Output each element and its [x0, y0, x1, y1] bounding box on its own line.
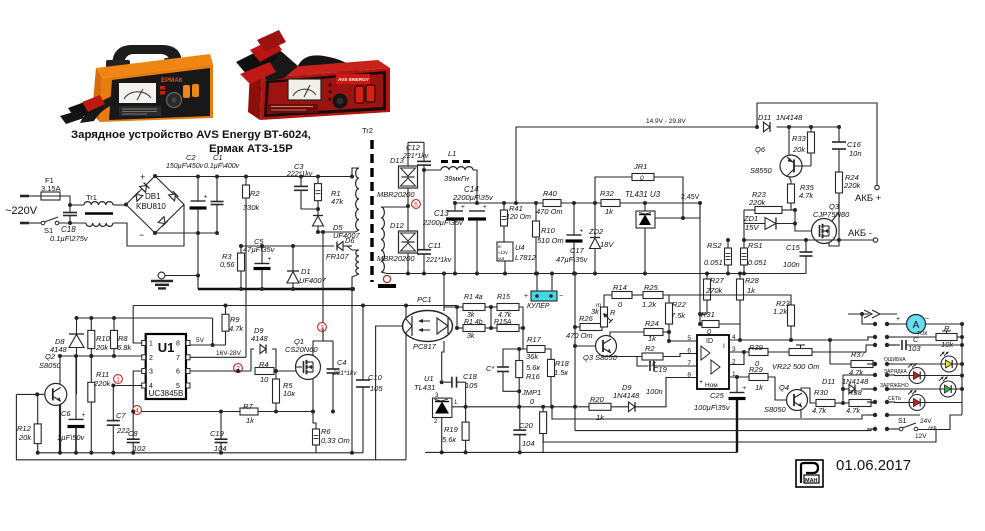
- node 3 marker: [318, 323, 327, 332]
- wire L1 to plus rail: [473, 170, 477, 203]
- row connector wires: [456, 307, 458, 328]
- resistor R10 20k: [90, 318, 92, 330]
- svg-text:D11: D11: [758, 113, 771, 122]
- resistor R1 4a 3k: [463, 304, 485, 311]
- svg-text:7: 7: [687, 360, 691, 367]
- transistor Q3 S8050: [596, 336, 617, 357]
- svg-text:АКБ +: АКБ +: [855, 193, 882, 204]
- shunt regulator U3 TL431: [636, 211, 655, 228]
- resistor R30 4.7k: [816, 400, 835, 407]
- svg-text:5.6к: 5.6к: [526, 363, 540, 372]
- pin3 wire: [729, 351, 749, 353]
- svg-text:out: out: [498, 256, 505, 261]
- svg-text:150µF\450v: 150µF\450v: [166, 163, 204, 170]
- wire opto return riser: [405, 306, 407, 460]
- svg-text:L7812: L7812: [515, 253, 537, 262]
- svg-text:S8050: S8050: [39, 361, 62, 370]
- svg-text:4.7k: 4.7k: [846, 406, 861, 415]
- svg-text:4: 4: [135, 407, 139, 414]
- svg-text:MBR20200: MBR20200: [377, 190, 415, 199]
- wire C12 to L1 node: [423, 165, 425, 170]
- wire AC bottom to switch S1: [29, 222, 41, 224]
- svg-text:VR22 500 Om: VR22 500 Om: [772, 362, 820, 371]
- svg-text:D1: D1: [301, 267, 311, 276]
- svg-text:Ном: Ном: [705, 382, 718, 389]
- svg-text:L1: L1: [448, 149, 456, 158]
- Q6 emitter wire: [788, 127, 790, 156]
- shunt regulator U1 TL431: [433, 398, 452, 417]
- resistor R26 470 Om: [575, 326, 580, 328]
- svg-text:Зарядное устройство AVS Energ: Зарядное устройство AVS Energy ВТ-6024,: [71, 129, 311, 141]
- svg-text:MBR20200: MBR20200: [377, 254, 415, 263]
- svg-text:R8: R8: [118, 334, 128, 343]
- trimmer top wire: [604, 295, 612, 307]
- svg-text:R6: R6: [321, 427, 331, 436]
- capacitor C*: [503, 349, 527, 367]
- wire gate Q3: [795, 224, 812, 232]
- svg-text:СЕТЬ: СЕТЬ: [888, 396, 902, 402]
- svg-text:R9: R9: [230, 315, 240, 324]
- svg-text:Q6: Q6: [755, 145, 766, 154]
- svg-text:14.9V - 29.8V: 14.9V - 29.8V: [646, 118, 686, 125]
- svg-text:15V: 15V: [745, 223, 759, 232]
- capacitor C8 102: [132, 412, 134, 440]
- svg-text:ZD1: ZD1: [743, 214, 758, 223]
- svg-text:R39: R39: [749, 343, 764, 352]
- svg-text:C18: C18: [61, 225, 76, 234]
- svg-text:1k: 1k: [648, 334, 657, 343]
- svg-text:18V: 18V: [600, 240, 614, 249]
- Q3 source wire: [829, 240, 839, 246]
- svg-text:in: in: [498, 244, 502, 249]
- long wire 12V loop: [543, 430, 936, 443]
- svg-text:C15: C15: [786, 243, 801, 252]
- svg-text:0.051: 0.051: [748, 258, 767, 267]
- svg-text:221*1kv: 221*1kv: [402, 153, 429, 160]
- resistor R14 0: [612, 292, 632, 299]
- svg-text:C4: C4: [337, 358, 347, 367]
- pin1 wire: [729, 376, 749, 378]
- transformer Tr2 aux winding: [347, 246, 359, 250]
- transistor Q6 S8550: [780, 155, 802, 177]
- svg-text:JMP1: JMP1: [521, 388, 541, 397]
- svg-text:−: −: [139, 230, 144, 240]
- capacitor C17 47uF 35v: [573, 203, 575, 235]
- resistor R8 6.8k: [113, 318, 115, 330]
- svg-text:510 Om: 510 Om: [537, 236, 564, 245]
- wire R2 to pin6: [663, 354, 697, 357]
- capacitor C10 105: [362, 306, 364, 381]
- wire D11 cathode rail: [777, 126, 840, 128]
- secondary ground rail: [387, 273, 806, 275]
- svg-text:0.1µF\275v: 0.1µF\275v: [50, 234, 89, 243]
- wire choke bottom to bridge AC2: [113, 205, 184, 247]
- svg-text:+: +: [268, 256, 272, 263]
- primary ground rail thick: [198, 288, 353, 291]
- svg-text:470 Om: 470 Om: [566, 331, 593, 340]
- svg-text:U1: U1: [424, 374, 434, 383]
- resistor R20 1k: [575, 406, 589, 408]
- capacitor C 103: [887, 344, 900, 346]
- resistor R24 220k: [836, 172, 843, 193]
- AC terminal top: [20, 195, 29, 198]
- wire primary bottom: [318, 230, 359, 232]
- capacitor C12 221*1kv: [423, 142, 425, 161]
- HV minus wire: [155, 232, 217, 234]
- svg-text:RS2: RS2: [707, 241, 722, 250]
- svg-text:C*: C*: [486, 364, 495, 373]
- svg-text:TL431: TL431: [414, 383, 435, 392]
- resistor R10 510 Om: [535, 203, 537, 221]
- svg-text:3k: 3k: [591, 307, 600, 316]
- svg-text:1: 1: [149, 341, 153, 348]
- svg-text:U4: U4: [515, 243, 525, 252]
- diode D11 1N4148 indicator: [835, 402, 849, 404]
- wire opto to resistor rows: [444, 307, 457, 311]
- diode D6 FR107: [337, 242, 343, 251]
- svg-text:S1: S1: [898, 418, 907, 425]
- svg-text:C8: C8: [128, 429, 138, 438]
- svg-text:1.2k: 1.2k: [773, 307, 788, 316]
- IC comparator box: [697, 335, 729, 389]
- svg-text:R10: R10: [541, 226, 556, 235]
- svg-text:10: 10: [260, 375, 269, 384]
- gate wire to Q1: [274, 370, 296, 372]
- svg-text:8: 8: [176, 341, 180, 348]
- svg-text:100µF\35v: 100µF\35v: [694, 403, 731, 412]
- diode D9 4148: [251, 349, 254, 371]
- svg-text:102: 102: [133, 444, 146, 453]
- capacitor C20 104: [519, 407, 521, 430]
- resistor R38 4.7k: [849, 400, 871, 407]
- svg-text:36k: 36k: [526, 352, 539, 361]
- svg-text:1.5к: 1.5к: [554, 368, 568, 377]
- svg-text:R16: R16: [526, 372, 541, 381]
- svg-text:−: −: [559, 293, 563, 300]
- svg-text:МАН: МАН: [805, 478, 818, 484]
- svg-text:+: +: [896, 316, 900, 323]
- svg-text:+: +: [699, 379, 703, 386]
- svg-text:АКБ -: АКБ -: [848, 228, 872, 239]
- pin2 FB wire: [59, 355, 142, 357]
- wire secondary bottom to secondary ground: [381, 272, 387, 274]
- capacitor C15 100n: [805, 240, 807, 252]
- HV plus rail: [155, 176, 352, 178]
- secondary plus rail: [453, 202, 543, 204]
- svg-text:R1 4b: R1 4b: [464, 319, 483, 326]
- svg-text:6: 6: [176, 369, 180, 376]
- resistor R7 1k: [240, 408, 258, 415]
- svg-text:20k: 20k: [792, 145, 806, 154]
- capacitor C19 100n: [637, 357, 648, 367]
- svg-text:220k: 220k: [748, 198, 767, 207]
- svg-text:≈12v: ≈12v: [498, 250, 508, 255]
- transformer Tr2 secondary winding: [381, 207, 384, 272]
- svg-text:105: 105: [370, 384, 383, 393]
- Q4 collector wire: [801, 388, 816, 403]
- resistor R6 0.33 Om: [313, 412, 316, 430]
- capacitor C6 1uF 50v: [75, 356, 77, 419]
- resistor R2 330k startup: [245, 177, 247, 186]
- svg-text:100n: 100n: [646, 387, 663, 396]
- svg-text:R29: R29: [749, 365, 764, 374]
- svg-text:Tr2: Tr2: [362, 126, 373, 135]
- svg-text:10к: 10к: [283, 389, 295, 398]
- resistor R31 0: [699, 203, 701, 324]
- svg-text:TL431 U3: TL431 U3: [625, 190, 661, 199]
- svg-text:C17: C17: [570, 246, 585, 255]
- svg-text:5.6к: 5.6к: [442, 435, 456, 444]
- ground return loop: [16, 394, 406, 459]
- svg-text:R37: R37: [851, 350, 866, 359]
- svg-text:C1: C1: [213, 153, 223, 162]
- svg-text:C: C: [913, 335, 919, 344]
- resistor R15 4.7k: [497, 304, 519, 311]
- svg-text:0,56: 0,56: [220, 260, 235, 269]
- current shunt RS1 0.051: [743, 240, 745, 248]
- svg-text:UC3845B: UC3845B: [149, 389, 184, 398]
- svg-text:103: 103: [908, 344, 921, 353]
- svg-text:C20: C20: [519, 421, 534, 430]
- COMP long wire to optocoupler: [133, 305, 457, 307]
- wire S1 to C18 bottom: [59, 222, 86, 224]
- transistor Q2 S8050: [45, 383, 67, 405]
- svg-text:10n: 10n: [849, 149, 862, 158]
- resistor R12 20k: [37, 394, 39, 424]
- svg-text:RS1: RS1: [748, 241, 763, 250]
- svg-text:Q4: Q4: [779, 383, 789, 392]
- svg-text:1N4148: 1N4148: [613, 391, 640, 400]
- svg-text:C19: C19: [653, 365, 668, 374]
- AKB minus terminal: [873, 238, 877, 242]
- PC1 pin wires: [376, 326, 403, 460]
- svg-text:ОШИБКА: ОШИБКА: [884, 357, 906, 363]
- diode D8 4148: [76, 318, 78, 334]
- svg-text:R32: R32: [600, 189, 615, 198]
- top rail to AKB plus: [757, 103, 877, 185]
- diode D9 1N4148 lower: [629, 402, 636, 412]
- svg-text:R19: R19: [444, 425, 459, 434]
- svg-text:1µF\50v: 1µF\50v: [57, 433, 85, 442]
- capacitor C14 2200uF 35v: [469, 210, 485, 212]
- fuse F1 3.15A: [41, 192, 60, 200]
- resistor R35 4.7k: [788, 184, 795, 203]
- wire 14.9V-29.8V to D11: [516, 127, 757, 203]
- svg-text:1k: 1k: [605, 207, 614, 216]
- svg-text:R20: R20: [590, 395, 605, 404]
- svg-text:3k: 3k: [467, 333, 475, 340]
- svg-text:R11: R11: [96, 370, 109, 379]
- svg-text:5: 5: [414, 201, 418, 208]
- svg-text:C2: C2: [186, 153, 196, 162]
- svg-text:R27: R27: [710, 276, 725, 285]
- Q3 emitter wire: [610, 355, 642, 357]
- svg-text:4.7k: 4.7k: [812, 406, 827, 415]
- wire R29 to Q4 base: [768, 377, 787, 400]
- capacitor C18 0.1uF 275v: [69, 205, 71, 212]
- svg-text:C12: C12: [406, 143, 421, 152]
- svg-text:C18: C18: [463, 372, 478, 381]
- connector arrows: [848, 313, 869, 315]
- svg-text:ТОК: ТОК: [917, 331, 928, 337]
- svg-text:R33: R33: [792, 134, 807, 143]
- jumper JMP1 0: [542, 407, 544, 412]
- long wire bus to S1 row: [575, 429, 871, 431]
- svg-text:R2: R2: [645, 344, 655, 353]
- trimmer R 10k current set: [887, 336, 936, 338]
- svg-text:7: 7: [176, 355, 180, 362]
- Q3 drain wire: [832, 193, 839, 221]
- wire rectifier output top: [408, 141, 424, 143]
- svg-text:C7: C7: [116, 411, 126, 420]
- svg-text:PC817: PC817: [413, 342, 437, 351]
- rectifier D13 MBR20200: [407, 142, 409, 166]
- wire fuse to C18 top node: [60, 196, 84, 205]
- svg-text:ID: ID: [706, 338, 713, 345]
- capacitor C19 104: [220, 412, 222, 440]
- resistor R5 10k: [275, 371, 277, 379]
- Vref riser: [212, 318, 214, 345]
- svg-text:C6: C6: [61, 409, 71, 418]
- pin8 Vref wire: [190, 344, 226, 346]
- svg-text:1k: 1k: [596, 413, 605, 422]
- svg-text:R15A: R15A: [494, 319, 512, 326]
- snubber capacitor C4 221*1kv: [332, 341, 334, 369]
- trimmer R 3k: [602, 326, 604, 328]
- svg-text:S8550: S8550: [750, 166, 773, 175]
- svg-text:6.8k: 6.8k: [117, 343, 132, 352]
- svg-text:104: 104: [522, 439, 535, 448]
- wire secondary top to rectifier: [381, 206, 408, 208]
- svg-text:4.7k: 4.7k: [229, 324, 244, 333]
- svg-text:D12: D12: [390, 221, 405, 230]
- pin1 COMP wire: [133, 306, 142, 344]
- svg-text:R15: R15: [497, 294, 510, 301]
- svg-text:R25: R25: [644, 283, 659, 292]
- capacitor C25 100uF 35v: [736, 377, 738, 393]
- pin4 long wire: [740, 337, 875, 340]
- svg-text:U1: U1: [158, 340, 175, 355]
- bus riser: [574, 274, 576, 431]
- svg-text:Q3 S8050: Q3 S8050: [583, 353, 618, 362]
- node 5 marker: [412, 200, 421, 209]
- capacitor C11 221*1kv: [423, 170, 425, 250]
- capacitor C18 105: [451, 377, 453, 388]
- svg-text:I: I: [723, 343, 725, 350]
- svg-text:2200µF\35v: 2200µF\35v: [452, 193, 494, 202]
- ammeter feed wire: [862, 314, 875, 324]
- resistor R3 0.56: [240, 246, 242, 253]
- pin5 wire: [669, 340, 697, 342]
- svg-text:C19: C19: [210, 429, 225, 438]
- resistor R2 1k lower: [642, 353, 663, 360]
- rectifier D12 MBR20200: [407, 206, 409, 231]
- svg-text:R30: R30: [814, 388, 829, 397]
- svg-text:3.15A: 3.15A: [41, 184, 61, 193]
- svg-text:R2: R2: [250, 189, 260, 198]
- Q4 emitter wire: [800, 409, 802, 418]
- resistor R22 7.5k: [663, 295, 669, 303]
- svg-text:Q2: Q2: [45, 352, 56, 361]
- logo PMAN: [796, 460, 823, 487]
- switch S1: [41, 221, 45, 225]
- svg-text:12V: 12V: [915, 433, 927, 440]
- inductor L1 39mkGn: [424, 169, 441, 171]
- resistor R19 5.6k: [465, 407, 467, 422]
- svg-text:24V: 24V: [920, 418, 932, 425]
- svg-text:ZD2: ZD2: [588, 227, 604, 236]
- svg-text:~220V: ~220V: [5, 205, 38, 217]
- Q2 collector wire: [59, 356, 61, 384]
- resistor R23 1.2k right: [669, 295, 791, 305]
- resistor R17 36k: [527, 346, 545, 353]
- wire D9 to comparator pin8: [635, 378, 697, 407]
- svg-text:470 Om: 470 Om: [536, 207, 563, 216]
- AKB minus wire: [744, 239, 873, 241]
- svg-text:R17: R17: [527, 335, 542, 344]
- svg-text:−: −: [925, 316, 929, 323]
- svg-text:1k: 1k: [246, 416, 255, 425]
- svg-text:+: +: [140, 172, 145, 182]
- resistor R28 1k: [739, 274, 741, 280]
- row 415 stub: [894, 414, 920, 416]
- svg-text:ЕРМАК: ЕРМАК: [161, 77, 183, 84]
- svg-text:1: 1: [116, 376, 120, 383]
- capacitor C2 150uF 450v: [197, 177, 199, 202]
- svg-text:R4: R4: [259, 360, 269, 369]
- VCC wire D6 to R3/C5: [241, 245, 334, 247]
- svg-text:PC1: PC1: [417, 295, 432, 304]
- node 2 marker: [234, 364, 243, 373]
- node 4 marker: [133, 406, 142, 415]
- svg-text:S8050: S8050: [764, 405, 787, 414]
- svg-text:D11: D11: [822, 377, 835, 386]
- Q1 source wire: [312, 378, 314, 412]
- svg-text:R38: R38: [848, 388, 863, 397]
- photo red charger AVS Energy: [236, 30, 390, 120]
- fan KULER: [536, 274, 538, 292]
- long wire to connector row 415: [552, 407, 875, 419]
- svg-text:5V: 5V: [196, 337, 205, 344]
- svg-text:01.06.2017: 01.06.2017: [836, 457, 911, 474]
- resistor R23 220k: [744, 209, 755, 211]
- svg-text:0.051: 0.051: [704, 258, 723, 267]
- svg-text:AVS ENERGY: AVS ENERGY: [338, 77, 370, 83]
- wire ZD1 node to RS: [743, 224, 745, 241]
- resistor R11 220k: [90, 356, 92, 382]
- node 1 marker: [114, 375, 123, 384]
- bridge rectifier DB1 KBU810: [126, 176, 184, 233]
- svg-text:JR1: JR1: [633, 162, 647, 171]
- resistor R25 1.2k: [632, 294, 643, 296]
- svg-text:0: 0: [640, 175, 644, 182]
- pin3 CS wire: [133, 371, 142, 412]
- svg-text:222*1kv: 222*1kv: [286, 171, 313, 178]
- resistor R15A: [497, 325, 519, 332]
- svg-text:220k: 220k: [93, 379, 112, 388]
- svg-text:CJP75N80: CJP75N80: [813, 210, 850, 219]
- ground symbol secondary: [383, 275, 390, 282]
- snubber resistor R1 47k: [317, 177, 319, 184]
- svg-text:2,45V: 2,45V: [681, 194, 700, 201]
- resistor R37 4.7k: [830, 363, 851, 365]
- Q2 emitter wire: [59, 405, 61, 453]
- svg-text:1N4148: 1N4148: [842, 377, 869, 386]
- svg-text:FR107: FR107: [326, 252, 349, 261]
- capacitor C7 222: [112, 386, 114, 421]
- svg-text:+: +: [580, 228, 584, 235]
- Q1 drain wire: [313, 341, 323, 356]
